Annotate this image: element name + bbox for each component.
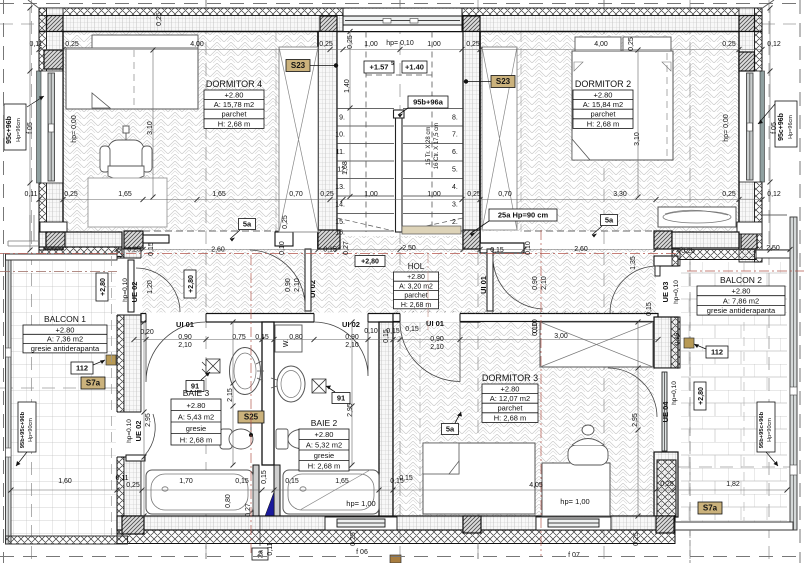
- svg-text:2,10: 2,10: [430, 344, 444, 351]
- elev +2,80 balcon2: [694, 382, 706, 410]
- column right wall above window: [739, 52, 755, 71]
- column stair-left bottom: [318, 230, 340, 249]
- crosshatch band below (balcony side): [39, 247, 122, 257]
- svg-text:25a Hp=90 cm: 25a Hp=90 cm: [498, 211, 549, 220]
- svg-text:0,25: 0,25: [350, 532, 357, 546]
- svg-text:0,27: 0,27: [343, 241, 350, 255]
- svg-text:0,25: 0,25: [660, 481, 674, 488]
- svg-text:Hp=96cm: Hp=96cm: [16, 118, 22, 142]
- svg-text:9.: 9.: [339, 115, 345, 122]
- stairwell top window gap: [343, 9, 462, 31]
- balcon2 parapet bottom: [675, 522, 793, 530]
- parquet floor dormitor 2: [480, 32, 739, 232]
- exterior wall bottom: crosshatch band: [117, 530, 675, 544]
- svg-text:1,00: 1,00: [427, 41, 441, 48]
- bed dormitor4: [66, 48, 198, 109]
- svg-text:5: 5: [391, 61, 394, 67]
- margin dash right: [799, 0, 801, 563]
- svg-text:1,35: 1,35: [630, 256, 637, 270]
- dim row baths top line: [134, 339, 658, 341]
- svg-text:0,75: 0,75: [232, 334, 246, 341]
- window label 95b+95c+96b balcon1: [18, 402, 36, 452]
- section line vertical baie (red dash-dot): [250, 255, 252, 556]
- stairwell window glazing: [343, 16, 462, 25]
- parquet floor hol: [63, 232, 656, 317]
- svg-text:1,00: 1,00: [364, 41, 378, 48]
- stair break line: [337, 218, 463, 231]
- exterior wall bottom: masonry band: [117, 516, 675, 530]
- svg-text:0,80: 0,80: [225, 494, 232, 508]
- svg-text:f 06: f 06: [356, 549, 368, 556]
- svg-text:BALCON 2: BALCON 2: [720, 275, 762, 285]
- door arc UE02 upper: [136, 268, 180, 312]
- exterior wall right: [755, 8, 763, 262]
- svg-text:0,80: 0,80: [289, 334, 303, 341]
- svg-text:0,27: 0,27: [245, 503, 252, 517]
- svg-text:f 05: f 05: [27, 122, 34, 134]
- balcon1 parapet left: [6, 254, 12, 544]
- door UI02 dormitor4: frame stubs: [275, 232, 293, 246]
- svg-text:f 07: f 07: [568, 552, 580, 559]
- svg-text:+2.80: +2.80: [594, 90, 613, 99]
- svg-text:5a: 5a: [446, 425, 455, 434]
- window label 95b+95c+96b balcon2: [757, 402, 775, 452]
- svg-text:gresie antiderapanta: gresie antiderapanta: [707, 306, 776, 315]
- svg-text:0,15: 0,15: [235, 478, 249, 485]
- svg-text:A: 12,07 m2: A: 12,07 m2: [490, 394, 530, 403]
- svg-text:1,65: 1,65: [335, 478, 349, 485]
- svg-text:0,10: 0,10: [279, 241, 286, 255]
- washing machine baie2: [275, 325, 302, 352]
- svg-text:16 Ctr. X 17,5 cm: 16 Ctr. X 17,5 cm: [434, 123, 440, 169]
- svg-text:H: 2,68 m: H: 2,68 m: [587, 119, 620, 128]
- column stair-right bottom: [463, 230, 480, 249]
- svg-text:5.: 5.: [452, 167, 458, 174]
- window f06: [325, 517, 397, 530]
- svg-text:S7a: S7a: [86, 379, 101, 388]
- svg-text:A: 7,86 m2: A: 7,86 m2: [723, 296, 759, 305]
- parquet floor dormitor 3: [393, 322, 654, 516]
- elev +2,80 balcon1 edge: [96, 273, 108, 301]
- svg-text:0,25: 0,25: [65, 41, 79, 48]
- svg-text:2,60: 2,60: [211, 247, 225, 254]
- svg-text:H: 2,68 m: H: 2,68 m: [401, 302, 432, 309]
- svg-text:+1.40: +1.40: [405, 63, 424, 72]
- svg-text:hp= 1,00: hp= 1,00: [346, 499, 375, 508]
- svg-text:0,25: 0,25: [156, 12, 163, 26]
- desk dormitor4: [88, 178, 167, 227]
- column bottom-mid: [463, 516, 481, 533]
- wall dormitor3 top: [393, 314, 658, 322]
- blue drain wedge: [265, 492, 274, 516]
- svg-text:UE 04: UE 04: [661, 401, 670, 423]
- svg-text:0,90: 0,90: [430, 336, 444, 343]
- svg-text:DORMITOR 2: DORMITOR 2: [575, 79, 631, 89]
- svg-text:0,25: 0,25: [633, 532, 640, 546]
- right window outer pane strip: [760, 71, 765, 182]
- window f07: [536, 517, 611, 530]
- dim row hall y249 line: [117, 249, 790, 251]
- svg-text:0,25: 0,25: [466, 41, 480, 48]
- svg-text:0,25: 0,25: [467, 191, 481, 198]
- svg-text:0,11: 0,11: [24, 191, 37, 198]
- lintel dashed line over hall top (5a): [143, 230, 318, 232]
- svg-text:f 05: f 05: [771, 122, 778, 134]
- svg-text:H: 2,68 m: H: 2,68 m: [180, 435, 213, 444]
- svg-text:0,25: 0,25: [282, 215, 289, 229]
- door leaf+arc UE03: [655, 266, 660, 276]
- door leaf UE02 upper: [128, 260, 134, 312]
- svg-text:2,50: 2,50: [402, 245, 416, 252]
- balcon2 top wall crosshatch: [672, 250, 756, 260]
- axis dashed verticals: [31, 0, 33, 563]
- wall stub right of column: [143, 235, 169, 243]
- svg-text:2,10: 2,10: [541, 276, 548, 290]
- svg-text:S7a: S7a: [703, 504, 718, 513]
- corner diagonal top-left: [28, 0, 40, 9]
- svg-text:0,90: 0,90: [285, 278, 292, 292]
- svg-text:UI 01: UI 01: [426, 319, 444, 328]
- svg-text:0,25: 0,25: [127, 247, 141, 254]
- svg-text:0,25: 0,25: [722, 41, 736, 48]
- svg-text:2,50: 2,50: [766, 245, 780, 252]
- svg-text:7.: 7.: [452, 132, 458, 139]
- wall dormitor3 / balcon2 with door UE04: [654, 317, 678, 368]
- svg-text:1,60: 1,60: [58, 478, 72, 485]
- svg-text:+2.80: +2.80: [732, 287, 751, 296]
- svg-text:0,25: 0,25: [64, 191, 78, 198]
- chair dormitor3: [568, 425, 608, 465]
- section label S23 left: [286, 60, 310, 72]
- window label box 95c+96b right: [775, 101, 797, 147]
- svg-text:H: 2,68 m: H: 2,68 m: [494, 413, 527, 422]
- bathtub baie2: [283, 470, 379, 514]
- svg-text:3,10: 3,10: [634, 132, 641, 146]
- svg-text:BAIE 3: BAIE 3: [183, 388, 210, 398]
- wall baie2 / dormitor3: [379, 322, 393, 517]
- svg-text:UI 02: UI 02: [342, 320, 360, 329]
- door arc UE04: [608, 368, 657, 417]
- svg-text:95b+96a: 95b+96a: [413, 98, 444, 107]
- svg-text:gresie: gresie: [314, 451, 334, 460]
- column left wall corner: [47, 16, 64, 32]
- svg-text:0,25: 0,25: [347, 35, 354, 49]
- svg-text:+2,80: +2,80: [698, 387, 705, 405]
- smoke detector icon balcon1: [106, 355, 116, 365]
- section label S7a left: [81, 377, 105, 389]
- svg-text:parchet: parchet: [404, 293, 427, 300]
- svg-text:HOL: HOL: [408, 262, 425, 271]
- svg-text:14.: 14.: [335, 202, 345, 209]
- svg-text:1,00: 1,00: [364, 191, 378, 198]
- wall west (balcon1 side) of baths: [117, 249, 124, 534]
- label 2a duct: [252, 548, 268, 560]
- left wall window f05 opening: [40, 71, 63, 183]
- svg-text:A: 5,43 m2: A: 5,43 m2: [178, 412, 214, 421]
- svg-text:0,11: 0,11: [29, 41, 42, 48]
- svg-text:+2.80: +2.80: [407, 274, 425, 281]
- svg-text:1,68: 1,68: [342, 161, 349, 175]
- ledge lines top-left of balcon1: [8, 215, 39, 246]
- door UE02 lower opening (baie3 to balcon1): [116, 412, 142, 457]
- svg-text:UE 02: UE 02: [130, 282, 139, 303]
- bathtub baie3: [146, 470, 253, 514]
- dim row top (inside rooms): [39, 49, 762, 51]
- svg-text:0,25: 0,25: [628, 37, 635, 51]
- svg-text:A: 7,36 m2: A: 7,36 m2: [47, 335, 83, 344]
- svg-text:+2.80: +2.80: [187, 401, 206, 410]
- svg-text:+1.57: +1.57: [370, 63, 389, 72]
- wc baie3: [220, 429, 253, 449]
- tile floor balcon 1: [11, 261, 117, 536]
- margin dash top: [0, 3, 804, 5]
- svg-text:parchet: parchet: [497, 404, 523, 413]
- svg-text:4,00: 4,00: [594, 41, 608, 48]
- door UE04 glazed leaf: [662, 372, 667, 451]
- svg-text:+2,80: +2,80: [361, 258, 379, 265]
- svg-text:4.: 4.: [452, 184, 458, 191]
- svg-text:0,12: 0,12: [767, 41, 781, 48]
- column left wall above window: [44, 50, 63, 69]
- svg-text:gresie antiderapanta: gresie antiderapanta: [31, 344, 100, 353]
- svg-text:+2.80: +2.80: [56, 325, 75, 334]
- svg-text:5a: 5a: [243, 220, 252, 229]
- svg-text:2,10: 2,10: [294, 278, 301, 292]
- svg-text:hp= 1,00: hp= 1,00: [560, 497, 589, 506]
- door leaf+arc UI01 dormitor2: [487, 249, 493, 311]
- bed dormitor2: [572, 51, 673, 160]
- column bottom-left: [122, 516, 144, 534]
- svg-text:16.: 16.: [335, 230, 345, 237]
- svg-text:S23: S23: [496, 77, 511, 86]
- svg-text:15.: 15.: [335, 219, 345, 226]
- svg-text:+2.80: +2.80: [315, 430, 334, 439]
- svg-text:3,00: 3,00: [554, 333, 568, 340]
- column d4 bottom left: [46, 232, 65, 247]
- column right wall corner: [739, 16, 755, 32]
- svg-text:2,60: 2,60: [574, 246, 588, 253]
- balcon2 top parapet thin: [756, 250, 797, 258]
- wall baths top (hol south wall): [141, 314, 480, 323]
- door UE02 upper opening (hall to balcon1): [116, 258, 142, 315]
- svg-text:1,65: 1,65: [212, 191, 226, 198]
- sill stub left wall bottom: [40, 222, 67, 234]
- label 5a hall left with arrow: [239, 219, 256, 230]
- desk dormitor3: [542, 463, 610, 516]
- dash line balcon1 y271: [0, 271, 117, 273]
- balcon1 parapet top: [6, 254, 118, 260]
- door UE04 opening: [655, 368, 677, 452]
- svg-text:+2.80: +2.80: [501, 384, 520, 393]
- label 5a dormitor3 with arrow: [442, 424, 459, 435]
- right window frame band: [747, 73, 754, 180]
- dim row mid y196: [39, 199, 762, 201]
- svg-text:hp= 0,00: hp= 0,00: [71, 115, 78, 143]
- balcon2 boundary dashes: [689, 262, 691, 522]
- svg-text:H: 2,68 m: H: 2,68 m: [308, 462, 341, 471]
- exterior wall left: [39, 8, 47, 250]
- column stair-left top: [320, 16, 337, 32]
- svg-text:0,25: 0,25: [126, 482, 140, 489]
- svg-text:Hp=90cm: Hp=90cm: [28, 418, 34, 442]
- svg-text:A: 15,78 m2: A: 15,78 m2: [214, 100, 254, 109]
- svg-text:95b+95c+96b: 95b+95c+96b: [20, 411, 26, 448]
- svg-text:Hp=90cm: Hp=90cm: [767, 418, 773, 442]
- parquet floor under stair bottom: [337, 236, 463, 249]
- parquet floor dormitor 4: [63, 32, 318, 232]
- sink baie2: [277, 366, 305, 402]
- label 5a hall right with arrow: [601, 215, 618, 226]
- wardrobe shaft dormitor2 (X): [482, 47, 517, 230]
- smoke detector icon balcon2: [684, 338, 694, 348]
- svg-text:2.: 2.: [452, 219, 458, 226]
- svg-text:0,15: 0,15: [255, 334, 269, 341]
- svg-text:0,15: 0,15: [646, 302, 653, 316]
- column stair-right top: [463, 16, 480, 32]
- dim row bottom y486: [11, 489, 787, 491]
- svg-text:6.: 6.: [452, 149, 458, 156]
- margin dash bottom: [0, 556, 804, 558]
- svg-text:0,10: 0,10: [525, 241, 532, 255]
- svg-text:+2.80: +2.80: [225, 90, 244, 99]
- wc baie2: [276, 429, 314, 449]
- left window frame band: [48, 73, 55, 181]
- svg-text:S23: S23: [291, 61, 306, 70]
- section label S25: [238, 411, 264, 423]
- section label S7a right: [698, 502, 722, 514]
- balcon1 parapet bottom: [6, 536, 128, 544]
- svg-text:8.: 8.: [452, 115, 458, 122]
- svg-text:0,12: 0,12: [767, 191, 781, 198]
- svg-text:0,90: 0,90: [532, 276, 539, 290]
- tile floor balcon 2: [681, 262, 787, 522]
- svg-text:11.: 11.: [336, 149, 345, 156]
- svg-text:DORMITOR 4: DORMITOR 4: [206, 79, 262, 89]
- svg-text:hp=0,10: hp=0,10: [671, 381, 678, 405]
- section label S23 right: [491, 76, 515, 88]
- door arc baie2: [314, 322, 368, 376]
- balcon2 parapet right (glazed): [790, 217, 797, 530]
- svg-text:95c+96b: 95c+96b: [6, 116, 13, 144]
- door opening baie2: [314, 313, 368, 324]
- wardrobe dormitor3 (X): [540, 322, 653, 367]
- column left wall below window: [44, 230, 63, 249]
- svg-text:gresie: gresie: [186, 424, 206, 433]
- stair opening dashed outline: [366, 32, 432, 233]
- radiator baie2: [312, 379, 326, 393]
- column dormitor4 bottom: [124, 231, 143, 248]
- svg-text:0,15: 0,15: [285, 478, 299, 485]
- svg-text:+2,80: +2,80: [188, 275, 195, 293]
- duct niche between tubs (2a): [253, 465, 259, 516]
- elev +2,80 hall left: [184, 270, 196, 298]
- svg-text:15 Tr. X 28 cm: 15 Tr. X 28 cm: [426, 127, 432, 166]
- svg-text:hp=0,10: hp=0,10: [673, 280, 680, 304]
- svg-text:4,00: 4,00: [190, 41, 204, 48]
- svg-text:0,15: 0,15: [490, 247, 504, 254]
- stair treads left flight: [337, 108, 394, 110]
- door leaf UE02 lower: [126, 455, 145, 461]
- exterior wall top: masonry band: [39, 16, 762, 32]
- svg-text:0,20: 0,20: [140, 329, 154, 336]
- svg-text:0,90: 0,90: [178, 334, 192, 341]
- svg-text:DORMITOR 3: DORMITOR 3: [482, 373, 538, 383]
- svg-text:0,10: 0,10: [532, 322, 539, 336]
- svg-text:5a: 5a: [605, 216, 614, 225]
- stair center stringer: [396, 113, 403, 232]
- svg-text:1,65: 1,65: [118, 191, 132, 198]
- svg-text:0,15: 0,15: [261, 470, 268, 484]
- dash line balcon1 right edge x112: [111, 256, 113, 536]
- radiator baie3: [202, 359, 220, 373]
- svg-text:hp= 0,10: hp= 0,10: [386, 40, 414, 47]
- exterior wall top: insulation crosshatch band: [39, 8, 762, 16]
- level label +1.57: [364, 61, 394, 73]
- svg-text:0,11: 0,11: [267, 542, 274, 555]
- svg-text:4,05: 4,05: [529, 482, 543, 489]
- label 112 balcon1: [71, 362, 93, 374]
- svg-text:0,15: 0,15: [399, 475, 413, 482]
- wall stairwell / dormitor2: [463, 32, 480, 250]
- svg-text:95b+95c+96b: 95b+95c+96b: [759, 411, 765, 448]
- window label box 95c+96b left: [4, 104, 26, 150]
- svg-text:parchet: parchet: [590, 110, 616, 119]
- door opening dormitor3 (UI01): [400, 313, 460, 323]
- margin dash left: [3, 0, 5, 563]
- elev +2,80 hall center: [355, 256, 385, 267]
- door opening baie3: [146, 313, 206, 324]
- svg-text:BALCON 1: BALCON 1: [44, 314, 86, 324]
- door leaf+arc UI02 dormitor4: [305, 249, 311, 311]
- section line vertical hall center (red dash-dot faint): [427, 253, 429, 330]
- dresser dormitor2 bottom: [658, 207, 736, 227]
- svg-text:0,15: 0,15: [386, 328, 400, 335]
- wall baie3 / baie2: [262, 322, 274, 465]
- svg-text:1,20: 1,20: [147, 280, 154, 294]
- svg-text:112: 112: [711, 348, 723, 357]
- svg-text:0,15: 0,15: [323, 247, 337, 254]
- label 91 baie2: [332, 393, 350, 404]
- sink baie3: [230, 348, 261, 395]
- svg-text:hp=0.10: hp=0.10: [126, 419, 133, 443]
- section line horizontal (red dash-dot): [0, 253, 680, 255]
- svg-text:A: 5,32 m2: A: 5,32 m2: [306, 441, 342, 450]
- wardrobe shaft dormitor4 (X): [279, 47, 318, 232]
- svg-text:1,00: 1,00: [427, 191, 441, 198]
- svg-text:2,95: 2,95: [145, 413, 152, 427]
- svg-text:0,10: 0,10: [364, 328, 378, 335]
- svg-text:hp=0,10: hp=0,10: [122, 278, 129, 302]
- svg-text:1,82: 1,82: [726, 481, 740, 488]
- svg-text:0,11: 0,11: [115, 475, 128, 482]
- svg-text:0,15: 0,15: [148, 242, 155, 256]
- column bottom-right: [656, 516, 674, 533]
- svg-text:3,30: 3,30: [613, 191, 627, 198]
- wall dormitor4 bottom left segment: [39, 232, 122, 247]
- svg-text:0,25: 0,25: [722, 191, 736, 198]
- svg-text:H: 2,68 m: H: 2,68 m: [218, 119, 251, 128]
- armchair dormitor4: [100, 126, 152, 180]
- svg-text:0,15: 0,15: [405, 326, 419, 333]
- door arc baie3: [146, 322, 206, 382]
- sill stub right wall bottom (d2): [737, 222, 762, 234]
- bed dormitor3: [423, 443, 535, 514]
- column right wall below window: [741, 231, 757, 249]
- svg-text:3.: 3.: [452, 202, 458, 209]
- label 91 baie3: [186, 381, 204, 392]
- wall below UE04 + crosshatch column: [654, 452, 678, 517]
- svg-text:parchet: parchet: [221, 110, 247, 119]
